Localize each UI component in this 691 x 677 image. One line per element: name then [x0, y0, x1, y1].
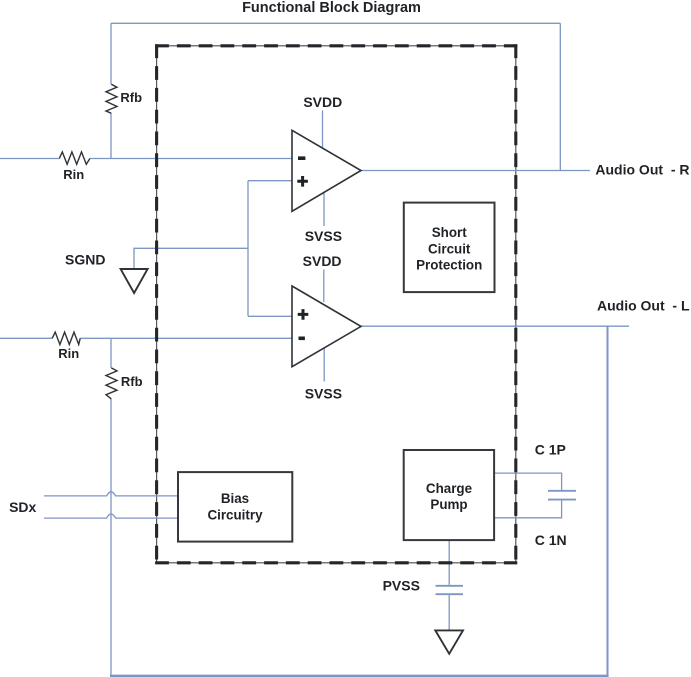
- svg-text:SVDD: SVDD: [303, 253, 342, 269]
- svg-text:Circuitry: Circuitry: [207, 508, 263, 523]
- svg-text:Charge: Charge: [426, 481, 472, 496]
- svg-text:Audio Out - R: Audio Out - R: [595, 162, 689, 178]
- svg-text:SVSS: SVSS: [305, 386, 342, 402]
- svg-text:Rfb: Rfb: [121, 374, 143, 389]
- svg-text:Rfb: Rfb: [120, 90, 142, 105]
- svg-text:SGND: SGND: [65, 252, 105, 268]
- svg-text:Functional Block Diagram: Functional Block Diagram: [242, 0, 421, 16]
- svg-text:Pump: Pump: [430, 497, 467, 512]
- svg-text:Short: Short: [432, 225, 468, 240]
- svg-text:Audio Out - L: Audio Out - L: [597, 298, 690, 314]
- svg-text:PVSS: PVSS: [383, 578, 420, 594]
- svg-text:C 1P: C 1P: [535, 442, 566, 458]
- svg-text:Protection: Protection: [416, 258, 482, 273]
- svg-text:Rin: Rin: [63, 167, 84, 182]
- svg-text:Rin: Rin: [58, 346, 79, 361]
- svg-text:SVSS: SVSS: [305, 228, 342, 244]
- svg-text:SVDD: SVDD: [303, 94, 342, 110]
- svg-text:SDx: SDx: [9, 499, 36, 515]
- svg-text:C 1N: C 1N: [535, 532, 567, 548]
- svg-text:Bias: Bias: [221, 491, 249, 506]
- svg-text:Circuit: Circuit: [428, 241, 471, 256]
